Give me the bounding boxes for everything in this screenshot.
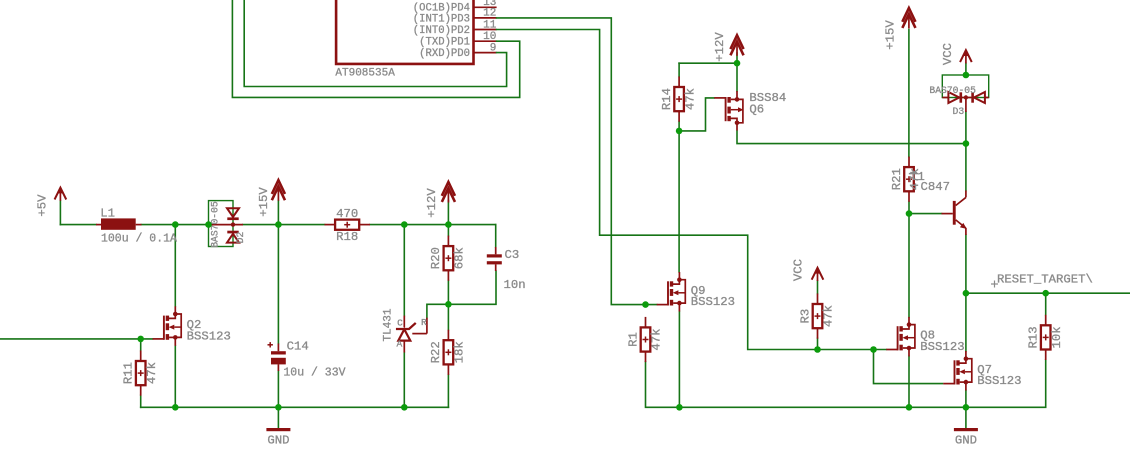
svg-text:D3: D3 [953, 106, 965, 117]
svg-text:L1: L1 [100, 207, 115, 221]
diode D2 BAS70-05 dual [209, 201, 247, 248]
resistor R11 47k [122, 351, 159, 396]
wire TL431 ref to divider node [427, 304, 449, 317]
power +12V symbol right [713, 32, 743, 62]
svg-text:+5V: +5V [35, 194, 49, 217]
svg-text:10n: 10n [504, 278, 526, 292]
wire D3 cathode down [965, 112, 967, 144]
svg-text:+15V: +15V [883, 20, 897, 50]
svg-text:+12V: +12V [713, 32, 727, 62]
svg-text:R11: R11 [122, 362, 136, 384]
power +15V symbol left [257, 180, 285, 217]
junction Q2 gate / R11 top [137, 336, 144, 343]
wire R21 bottom link [908, 202, 910, 214]
ground symbol GND left [266, 428, 290, 447]
wire R14 bottom link [678, 122, 680, 131]
wire R18 to C3 corner [370, 224, 496, 226]
IC pin 10 (TXD)PD1 [419, 31, 496, 49]
power +15V symbol right [883, 8, 915, 50]
power +12V symbol left [425, 182, 455, 218]
wire VCC stem right [965, 64, 967, 76]
junction R21 bottom / T1 base / Q8 drain [906, 210, 913, 217]
wire T1 collector link [965, 144, 967, 191]
svg-text:R14: R14 [660, 88, 674, 110]
transistor T1 BC847 [942, 191, 967, 236]
svg-text:RESET_TARGET\: RESET_TARGET\ [997, 273, 1093, 287]
junction R3 bottom / gate net [814, 346, 821, 353]
power VCC symbol middle [791, 259, 823, 281]
capacitor C14 10u / 33V [268, 340, 346, 380]
shunt regulator TL431 [382, 308, 427, 352]
svg-text:GND: GND [267, 433, 289, 447]
junction +15V rail / C14 branch [275, 221, 282, 228]
junction +12V rail / Q6 drain [734, 60, 741, 67]
svg-text:R: R [421, 317, 427, 328]
wire +12V rail to R14 [679, 62, 737, 64]
junction RESET_TARGET / R13 top [1042, 290, 1049, 297]
svg-text:470: 470 [336, 207, 358, 221]
IC pin 9 (RXD)PD0 [419, 42, 496, 60]
svg-text:BSS123: BSS123 [920, 340, 964, 354]
svg-text:+12V: +12V [425, 188, 439, 218]
wire C14 bottom link [277, 371, 279, 407]
wire L1 to D2 [142, 224, 209, 226]
wire GND right stub [965, 407, 967, 428]
svg-text:68k: 68k [453, 247, 467, 269]
wire +15V right column [908, 30, 910, 157]
diode D3 BAS70-05 dual [929, 75, 988, 117]
wire +12V left stem [447, 201, 449, 225]
wire Q7 source down to rail [965, 391, 967, 408]
resistor R14 47k [660, 77, 697, 122]
junction +15V rail / R20 top [445, 221, 452, 228]
svg-text:(INT1)PD3: (INT1)PD3 [413, 13, 470, 25]
wire R13 top link [1045, 293, 1047, 315]
transistor Q8 BSS123 [886, 317, 964, 357]
svg-text:(TXD)PD1: (TXD)PD1 [419, 37, 470, 49]
IC pin 12 (INT1)PD3 [413, 8, 497, 26]
junction GND rail / Q8 source [906, 404, 913, 411]
svg-text:R22: R22 [429, 341, 443, 363]
svg-text:C: C [397, 318, 403, 329]
wire +12V down to Q6 [736, 63, 738, 91]
svg-text:9: 9 [490, 42, 497, 54]
wire R14 node to Q6 gate [679, 98, 714, 131]
wire +5V rail to L1 [60, 224, 96, 226]
wire T1 emitter to reset node [965, 235, 967, 293]
svg-text:R3: R3 [798, 309, 812, 324]
wire TL431 cathode [403, 225, 405, 316]
resistor R13 10k [1027, 315, 1064, 360]
resistor R18 470 [325, 207, 371, 244]
resistor R3 47k [798, 294, 835, 339]
svg-text:18k: 18k [453, 341, 467, 363]
wire +5V stem [59, 201, 61, 225]
wire +15V stem and C14 column [277, 201, 279, 344]
wire T1 base link [909, 213, 942, 215]
wire D2 to R18 [243, 224, 325, 226]
junction Q6 drain net / D3 / T1 collector [963, 140, 970, 147]
resistor R20 68k [429, 236, 466, 281]
svg-text:R21: R21 [890, 168, 904, 190]
transistor Q9 BSS123 [657, 272, 735, 312]
wire R21 node down to Q8 drain [908, 214, 910, 317]
svg-text:VCC: VCC [941, 43, 955, 65]
svg-text:C14: C14 [287, 340, 309, 354]
wire RESET_TARGET net [966, 292, 1130, 294]
resistor R21 47k [890, 157, 922, 202]
transistor Q2 BSS123 [153, 306, 231, 346]
junction GND rail / Q7 source / GND stub [963, 404, 970, 411]
svg-text:+15V: +15V [257, 187, 271, 217]
svg-text:47k: 47k [145, 362, 159, 384]
svg-text:BAS70-05: BAS70-05 [929, 85, 976, 96]
wire R11 top link [140, 339, 142, 351]
svg-text:BSS123: BSS123 [187, 330, 231, 344]
wire input to Q2 gate [0, 338, 153, 340]
svg-text:10: 10 [483, 31, 496, 43]
svg-text:(RXD)PD0: (RXD)PD0 [419, 48, 470, 60]
wire C3 top drop [495, 225, 497, 247]
wire R22 bottom link [447, 375, 449, 407]
wire Q9 source down to rail [678, 312, 680, 408]
junction R20 bottom / R22 top / TL431 ref [445, 301, 452, 308]
svg-text:11: 11 [483, 19, 497, 31]
junction VCC / D3 top [963, 72, 970, 79]
wire net PD2 from IC pin 12 to Q9 gate [497, 18, 657, 305]
power +5V symbol [35, 188, 65, 217]
junction Q9 gate / R1 top [642, 301, 649, 308]
svg-text:47k: 47k [650, 328, 664, 350]
wire TL431 anode to rail [403, 353, 405, 408]
capacitor C3 10n [487, 247, 526, 292]
wire L1 junction down to Q2 drain [174, 225, 176, 307]
junction GND rail / TL431 anode [401, 404, 408, 411]
IC U1 AT90S8535 box [336, 0, 473, 64]
svg-text:VCC: VCC [791, 259, 805, 281]
svg-text:10u / 33V: 10u / 33V [283, 367, 345, 380]
ground symbol GND right [954, 428, 978, 447]
wire divider node to C3 bottom [448, 271, 496, 304]
junction gate net / Q7 gate branch [870, 346, 877, 353]
wire Q2 source to bottom rail [174, 346, 176, 408]
wire R22 top link [447, 304, 449, 329]
svg-text:10k: 10k [1050, 326, 1064, 348]
wire R20 top link [447, 225, 449, 236]
svg-text:R1: R1 [626, 332, 640, 347]
resistor R1 47k [626, 317, 663, 362]
svg-text:100u / 0.1A: 100u / 0.1A [101, 233, 177, 246]
svg-text:(INT0)PD2: (INT0)PD2 [413, 25, 470, 37]
net label RESET_TARGET\ [991, 273, 1093, 288]
junction +15V rail / D2 anode [205, 221, 212, 228]
svg-text:AT908535A: AT908535A [335, 68, 395, 80]
junction +15V rail / TL431 cathode [401, 221, 408, 228]
junction GND rail / Q2 source [172, 404, 179, 411]
junction GND rail / Q9 source [676, 404, 683, 411]
svg-text:Q6: Q6 [749, 103, 764, 117]
wire R1 bottom to rail [646, 362, 680, 408]
svg-text:BSS123: BSS123 [977, 374, 1021, 388]
wire bottom GND rail left [141, 406, 449, 408]
wire bottom rail right with R13 riser [679, 360, 1045, 408]
svg-text:R18: R18 [336, 230, 358, 244]
IC pin 11 (INT0)PD2 [413, 19, 497, 37]
resistor R22 18k [429, 330, 466, 375]
svg-text:R13: R13 [1027, 326, 1041, 348]
wire +12V stem [736, 53, 738, 63]
svg-text:C847: C847 [921, 180, 951, 194]
junction R14 bottom / Q6 gate [676, 128, 683, 135]
svg-text:TL431: TL431 [382, 308, 394, 341]
svg-text:12: 12 [483, 8, 496, 20]
wire reset node down to Q7 drain [965, 293, 967, 351]
wire gate node to Q7 gate [874, 350, 943, 384]
svg-text:A: A [396, 338, 402, 349]
transistor T1 C847 labels [910, 170, 950, 194]
IC pin 13 (OC1B)PD4 [413, 0, 497, 15]
wire GND left stub [277, 407, 279, 428]
svg-text:BSS123: BSS123 [691, 295, 735, 309]
svg-text:C3: C3 [505, 248, 520, 262]
svg-text:47k: 47k [683, 88, 697, 110]
transistor Q6 BSS84 [714, 91, 786, 131]
junction GND rail / C14 bottom [275, 404, 282, 411]
wire R14 node down to Q9 drain [678, 131, 680, 272]
svg-text:D2: D2 [235, 232, 246, 244]
wire R11 bottom link [140, 395, 142, 407]
wire R14 top link [678, 63, 680, 76]
wire Q6 drain to node [737, 131, 966, 144]
wire net PD0 from IC pin 9 loop [244, 0, 506, 87]
svg-text:R20: R20 [429, 247, 443, 269]
wire VCC stem middle [817, 281, 819, 294]
wire R20 bottom link [447, 281, 449, 305]
wire net PD3 from IC pin 11 to Q8 gate [497, 30, 887, 350]
junction +15V rail / Q2 drain branch [172, 221, 179, 228]
inductor L1 100u / 0.1A [96, 207, 177, 246]
wire Q8 source down to rail [908, 356, 910, 407]
wire R3 bottom link [817, 338, 819, 349]
transistor Q7 BSS123 [943, 351, 1021, 391]
svg-text:47k: 47k [822, 305, 836, 327]
wire net PD1 from IC pin 10 loop [232, 0, 519, 97]
power VCC symbol right [941, 43, 971, 65]
junction RESET_TARGET / Q7 drain / T1 emitter [963, 290, 970, 297]
svg-text:GND: GND [955, 433, 977, 447]
